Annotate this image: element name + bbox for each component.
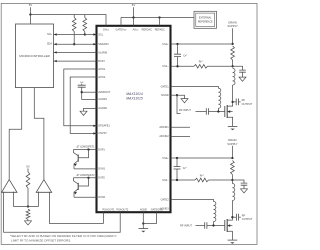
- wire GPO2 to CNVST: [70, 77, 96, 133]
- svg-text:RF*: RF*: [200, 174, 204, 177]
- inductor L2 gate feed: [218, 88, 220, 111]
- node RF OUTPUT 1 label: [242, 98, 253, 106]
- label Q2: [76, 174, 95, 177]
- pin label OPSAFE1: [98, 125, 110, 128]
- wire RF2 to node: [209, 179, 233, 181]
- wire ADCIN1 stub: [171, 126, 191, 128]
- junction gate2 node: [212, 224, 214, 226]
- node RF OUTPUT 2 label: [242, 214, 253, 222]
- node 5V mid label: [132, 3, 136, 7]
- wire Q1 collector pin: [74, 149, 97, 151]
- svg-text:REFDAC: REFDAC: [142, 29, 152, 32]
- svg-text:DXP1: DXP1: [98, 148, 105, 151]
- svg-text:ΔT LDMOSFET2: ΔT LDMOSFET2: [76, 174, 95, 177]
- wire Q2 collector pin: [74, 177, 97, 179]
- svg-text:DGND: DGND: [161, 94, 169, 97]
- capacitor Cin2: [205, 222, 207, 229]
- svg-text:AVDDOUT: AVDDOUT: [98, 91, 111, 94]
- svg-text:ADCIN1: ADCIN1: [159, 126, 169, 129]
- ground M2 source: [228, 240, 238, 244]
- pin label AGND3: [160, 207, 169, 210]
- wire ADCIN2 stub: [171, 135, 191, 137]
- junction AVDDOUT node: [81, 91, 83, 93]
- wire A1 output to micro: [9, 88, 22, 180]
- junction drain1 node: [231, 101, 233, 103]
- svg-text:SUPPLY: SUPPLY: [227, 24, 238, 28]
- svg-text:CS1–: CS1–: [162, 65, 169, 68]
- pin label CS2+: [162, 157, 169, 160]
- svg-text:SCL: SCL: [47, 33, 52, 36]
- wire 5V mid stub: [133, 7, 135, 17]
- caption line 2: [11, 239, 71, 243]
- node DRAIN SUPPLY 1 label: [227, 20, 238, 28]
- junction DGND: [176, 94, 178, 96]
- wire AVDD stub: [133, 18, 135, 26]
- wire GATEVDD stub: [120, 18, 122, 26]
- capacitor C1 label: [80, 82, 84, 84]
- svg-text:5V: 5V: [132, 3, 136, 7]
- svg-text:CF*: CF*: [183, 167, 187, 170]
- pin label GATEGND: [151, 208, 163, 211]
- svg-text:OUTPUT: OUTPUT: [242, 217, 253, 221]
- resistor R4: [26, 209, 30, 220]
- junction divider node: [27, 205, 29, 207]
- svg-text:CF*: CF*: [183, 54, 187, 57]
- svg-text:PGAOUT1: PGAOUT1: [103, 208, 116, 211]
- svg-text:AGND2: AGND2: [98, 107, 107, 110]
- wire REFADC stub: [159, 18, 161, 26]
- wire R1 top: [73, 15, 75, 18]
- pin label REFADC: [155, 29, 165, 32]
- transistor Q1 body: [74, 150, 89, 162]
- pin label DGND: [161, 94, 169, 97]
- pin label DXN1: [98, 168, 105, 171]
- svg-text:CS1+: CS1+: [162, 43, 169, 46]
- capacitor Cbyp2: [241, 183, 248, 189]
- pin label CS2–: [162, 179, 169, 182]
- svg-text:GATEGND: GATEGND: [151, 208, 163, 211]
- resistor RF1 label: [199, 61, 203, 64]
- junction AGND/GATEGND: [142, 222, 144, 224]
- wire ALARM: [54, 51, 97, 53]
- svg-text:RF INPUT: RF INPUT: [180, 223, 192, 227]
- wire to ground: [142, 224, 144, 229]
- IC U1 MAX11014/MAX11015 body: [97, 26, 171, 212]
- junction CS2- cap: [176, 179, 178, 181]
- wire R1 bottom: [73, 32, 75, 45]
- svg-text:GPO2: GPO2: [98, 76, 106, 79]
- wire GPO1 to OPSAFE1: [64, 69, 97, 126]
- transistor M1 RF LDMOS: [225, 102, 233, 127]
- wire Cin1 to gate: [209, 111, 225, 113]
- wire Cin2 to gate: [207, 225, 225, 227]
- pin label AVDD: [133, 29, 139, 32]
- wire RSENSE1 bottom: [232, 60, 234, 66]
- resistor RF2 label: [200, 174, 204, 177]
- pin label AGND1: [98, 98, 107, 101]
- wire RF1 to node: [208, 65, 233, 67]
- svg-text:DXN2: DXN2: [98, 196, 105, 199]
- microcontroller label: [19, 54, 50, 58]
- op-amp A1 minus: [3, 191, 5, 193]
- resistor R1 pullup SDA: [72, 18, 76, 32]
- wire PGAOUT2 to op-amp A1: [4, 192, 121, 232]
- capacitor Cout2: [232, 214, 240, 221]
- wire CS1+: [171, 43, 233, 45]
- wire rail B: [121, 17, 194, 19]
- external reference label: [198, 17, 213, 24]
- svg-text:AGND1: AGND1: [98, 98, 107, 101]
- junction Q1 base tie: [87, 148, 89, 150]
- pin label BUSY: [98, 60, 105, 63]
- wire BUSY: [54, 60, 97, 62]
- svg-text:DRAIN: DRAIN: [228, 138, 236, 142]
- pin label PGAOUT2: [116, 208, 129, 211]
- ground Cbyp2: [241, 189, 248, 193]
- pin label AVDDOUT: [98, 91, 111, 94]
- pin label REFDAC: [142, 29, 152, 32]
- svg-text:DRAIN: DRAIN: [228, 20, 236, 24]
- node 5V divider label: [26, 164, 30, 168]
- pin label GATE1: [161, 85, 170, 88]
- op-amp A1: [2, 180, 17, 193]
- svg-text:PGAOUT2: PGAOUT2: [116, 208, 129, 211]
- arrow Q2 emitter: [74, 192, 77, 195]
- ground M1 source: [228, 126, 238, 130]
- caption line 1: [10, 234, 117, 238]
- pin label ALARM: [98, 51, 107, 54]
- pin label OVDD: [103, 29, 110, 32]
- wire R4 to ground: [27, 220, 29, 221]
- svg-text:OVDD: OVDD: [103, 29, 110, 32]
- junction AVDD: [132, 16, 134, 18]
- transistor Q1 emitter: [74, 161, 78, 169]
- svg-text:CS2–: CS2–: [162, 179, 169, 182]
- svg-text:MICROCONTROLLER: MICROCONTROLLER: [19, 54, 50, 58]
- resistor RF1: [194, 65, 208, 69]
- svg-text:LIMIT RF TO MINIMIZE OFFSET ER: LIMIT RF TO MINIMIZE OFFSET ERRORS.: [11, 239, 71, 243]
- svg-text:GATEVDD: GATEVDD: [116, 29, 128, 32]
- wire AGND pin down: [142, 212, 144, 223]
- ground Cbyp1: [239, 77, 246, 81]
- pin label GATEVDD: [116, 29, 128, 32]
- arrow SCL into micro: [54, 33, 57, 35]
- arrow ALARM into micro: [54, 51, 57, 53]
- wire AGND2 pin: [84, 108, 97, 111]
- junction R2/SCL: [84, 33, 86, 35]
- capacitor CF1: [174, 44, 181, 66]
- wire DGND to ground: [177, 95, 185, 98]
- wire CS2+: [171, 157, 233, 159]
- node RF INPUT 2 label: [180, 223, 192, 227]
- wire decap2 branch: [232, 180, 244, 183]
- svg-text:OUTPUT: OUTPUT: [242, 102, 253, 106]
- IC U1 part number: [126, 92, 143, 101]
- svg-text:SDA/DIN: SDA/DIN: [98, 43, 108, 46]
- svg-text:DXN1: DXN1: [98, 168, 105, 171]
- pin label DXN2: [98, 196, 105, 199]
- junction gate1 node: [217, 110, 219, 112]
- pin label CS1+: [162, 43, 169, 46]
- wire R2 top: [84, 15, 86, 18]
- svg-text:GATE2: GATE2: [161, 198, 170, 201]
- capacitor CF1 label: [183, 54, 187, 57]
- svg-text:RF*: RF*: [199, 61, 203, 64]
- arrow BUSY into micro: [54, 60, 57, 62]
- border frame: [1, 3, 257, 244]
- microcontroller pin label SDA: [47, 43, 52, 46]
- op-amp A2 plus: [38, 191, 40, 193]
- wire 5V left stub: [29, 7, 31, 14]
- ground DGND: [181, 99, 188, 103]
- junction CS1- cap: [176, 65, 178, 67]
- junction CS2+ node: [231, 157, 233, 159]
- wire CS1- left: [171, 65, 195, 67]
- capacitor CF2: [174, 158, 181, 180]
- junction CS2- node: [231, 179, 233, 181]
- pin label CNVST: [98, 132, 107, 135]
- svg-text:REFERENCE: REFERENCE: [198, 21, 213, 24]
- microcontroller pin label SCL: [47, 33, 52, 36]
- wire SDA/DIN: [54, 43, 97, 45]
- svg-text:RF INPUT: RF INPUT: [179, 108, 191, 112]
- wire drain supply 2: [231, 146, 233, 158]
- pin label DXP2: [98, 177, 105, 180]
- pin label ADCIN2: [159, 135, 169, 138]
- wire A2 output to micro: [34, 88, 44, 180]
- capacitor Cbyp1: [239, 70, 246, 77]
- transistor Q2 body: [74, 178, 89, 190]
- inductor L1 drain choke: [233, 68, 235, 102]
- wire RSENSE2 bottom: [231, 175, 233, 181]
- svg-text:*SELECT RF AND CF BASED ON DES: *SELECT RF AND CF BASED ON DESIRED FILTE…: [10, 234, 117, 238]
- external reference box: [194, 11, 217, 28]
- svg-text:MAX11015: MAX11015: [126, 97, 143, 101]
- wire PGAOUT1 to op-amp A2: [49, 192, 103, 223]
- node DRAIN SUPPLY 2 label: [227, 138, 238, 146]
- svg-text:RF: RF: [242, 214, 246, 218]
- svg-text:SUPPLY: SUPPLY: [227, 142, 238, 146]
- pin label GPO1: [98, 68, 106, 71]
- svg-text:BUSY: BUSY: [98, 60, 105, 63]
- wire GATE2: [171, 200, 214, 202]
- wire Q1 emitter pin: [74, 168, 97, 170]
- inductor L3 drain choke: [232, 180, 234, 217]
- junction drain2 node: [231, 216, 233, 218]
- junction CS2+ cap: [176, 157, 178, 159]
- resistor R3: [26, 172, 30, 188]
- junction rail A / micro: [29, 13, 31, 15]
- pin label GATE2: [161, 198, 170, 201]
- svg-text:ΔT LDMOSFET1: ΔT LDMOSFET1: [76, 146, 95, 149]
- resistor R2 pullup SCL: [83, 18, 87, 32]
- arrow into OPSAFE1: [93, 125, 96, 127]
- label Q1: [76, 146, 95, 149]
- pin label DXP1: [98, 148, 105, 151]
- wire RF input 1: [196, 111, 207, 113]
- junction R1/SDA: [73, 43, 75, 45]
- arrow into CNVST: [93, 132, 96, 134]
- svg-text:MAX11014: MAX11014: [126, 92, 143, 96]
- op-amp A2 minus: [49, 191, 51, 193]
- svg-text:CS2+: CS2+: [162, 157, 169, 160]
- junction CS1+ node: [231, 43, 233, 45]
- op-amp A2: [36, 180, 52, 193]
- wire CS2- left: [171, 179, 196, 181]
- ground AGND2: [80, 111, 87, 115]
- wire GATE1: [171, 87, 219, 89]
- wire A2 plus input: [38, 192, 40, 206]
- wire rail A: [30, 15, 106, 26]
- junction CS1+ cap: [176, 43, 178, 45]
- capacitor CF2 label: [183, 167, 187, 170]
- wire R3 to node: [27, 188, 29, 207]
- svg-text:GPO1: GPO1: [98, 68, 106, 71]
- wire R2 bottom: [84, 32, 86, 35]
- svg-text:EXTERNAL: EXTERNAL: [199, 17, 212, 20]
- resistor RF2: [195, 178, 209, 182]
- wire micro supply: [29, 15, 31, 25]
- wire decap1 branch: [233, 66, 243, 70]
- pin label AGND: [140, 208, 147, 211]
- svg-text:RF: RF: [242, 98, 246, 102]
- arrow SDA into micro: [54, 43, 57, 45]
- resistor RSENSE2: [231, 161, 235, 175]
- wire divider to op-amp inputs: [13, 206, 38, 208]
- node RF INPUT 1 label: [179, 108, 191, 112]
- junction CS1- node: [231, 65, 233, 67]
- resistor RSENSE1: [231, 46, 235, 60]
- junction Q2 base tie: [87, 177, 89, 179]
- svg-text:CNVST: CNVST: [98, 132, 107, 135]
- wire A1 plus input: [12, 192, 14, 206]
- wire DGND stub down: [177, 95, 181, 113]
- capacitor Cout1: [233, 99, 241, 106]
- wire RF input 2: [196, 225, 205, 227]
- svg-text:5V: 5V: [29, 3, 33, 7]
- node 5V left label: [29, 3, 33, 7]
- transistor Q2 emitter: [74, 189, 78, 197]
- pin label PGAOUT1: [103, 208, 116, 211]
- pin label GPO2: [98, 76, 106, 79]
- inductor L4 gate feed: [214, 202, 216, 226]
- arrow Q1 emitter: [74, 164, 77, 167]
- arrow SDA into IC: [93, 43, 96, 45]
- wire drain supply 1: [232, 28, 234, 44]
- svg-text:SCL: SCL: [98, 33, 103, 36]
- pin label SDA/DIN: [98, 43, 108, 46]
- wire DGND pin: [171, 94, 178, 96]
- op-amp A1 plus: [13, 191, 15, 193]
- pin label ADCIN1: [159, 126, 169, 129]
- pin label SCL: [98, 33, 103, 36]
- wire AVDDOUT: [82, 91, 97, 93]
- svg-text:5V: 5V: [26, 164, 30, 168]
- svg-text:SDA: SDA: [47, 43, 52, 46]
- svg-text:REFADC: REFADC: [155, 29, 165, 32]
- ground AGND: [139, 229, 149, 233]
- wire Q2 emitter pin: [74, 196, 97, 198]
- arrow SCL into IC: [93, 33, 96, 35]
- junction REFADC: [158, 16, 160, 18]
- svg-text:AGND: AGND: [140, 208, 147, 211]
- capacitor C1: [78, 84, 86, 92]
- microcontroller U2 body: [16, 24, 54, 88]
- wire GATEGND pin down: [143, 212, 156, 223]
- wire divider top: [27, 168, 29, 172]
- transistor M2 RF LDMOS: [225, 217, 233, 240]
- svg-text:GATE1: GATE1: [161, 85, 170, 88]
- svg-text:DXP2: DXP2: [98, 177, 105, 180]
- ground divider: [25, 221, 32, 225]
- svg-text:OPSAFE1: OPSAFE1: [98, 125, 110, 128]
- capacitor Cin1: [206, 108, 208, 115]
- pin label AGND2: [98, 107, 107, 110]
- svg-text:ADCIN2: ADCIN2: [159, 135, 169, 138]
- wire AVDDOUT to AGND1: [82, 92, 97, 99]
- wire SCL: [54, 34, 97, 36]
- svg-text:AVDD: AVDD: [133, 29, 139, 32]
- pin label CS1–: [162, 65, 169, 68]
- svg-text:ALARM: ALARM: [98, 51, 107, 54]
